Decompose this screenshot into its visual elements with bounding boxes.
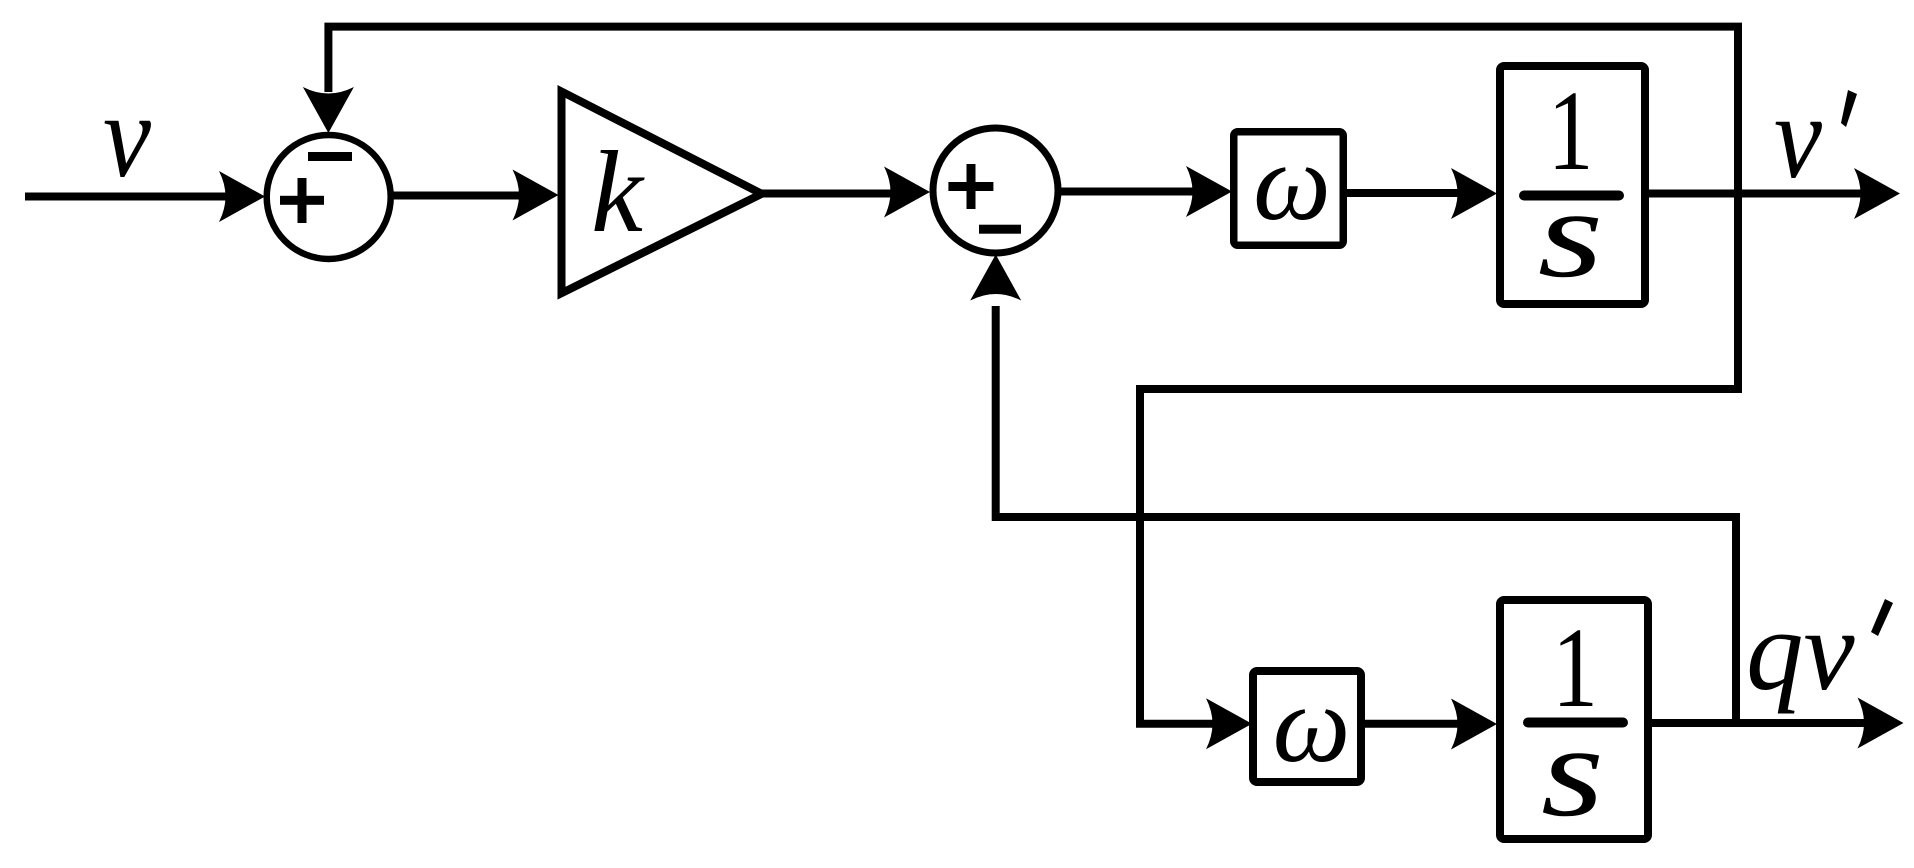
arrowhead: into w2 — [1206, 698, 1252, 749]
wire: qv' feedback up into S2 bottom — [996, 306, 1736, 724]
wire: w1 to integrator I1 — [1346, 189, 1459, 197]
svg-text:s: s — [1541, 699, 1604, 844]
minus sign in S1 — [308, 152, 352, 161]
svg-text:k: k — [591, 128, 645, 257]
label v' (output) — [1774, 70, 1822, 203]
svg-text:ω: ω — [1273, 663, 1351, 785]
wire: v' branch down to gain block w2 — [1140, 389, 1742, 724]
fraction bar in I2 — [1528, 718, 1623, 728]
svg-text:v: v — [1774, 70, 1822, 203]
summing junction S1 — [267, 135, 391, 259]
gain block w2 (omega) — [1253, 671, 1361, 782]
arrowhead: into integrator I1 — [1451, 168, 1497, 219]
gain k triangle — [562, 92, 762, 294]
svg-text:v: v — [103, 69, 151, 202]
denominator s in I1 — [1538, 164, 1604, 304]
wire: S2 to gain block w1 — [1059, 188, 1194, 196]
minus sign in S2 — [979, 225, 1021, 234]
wire: integrator I2 to output qv' — [1651, 719, 1865, 727]
arrowhead: feedback down into S1 — [303, 87, 354, 133]
wire: input v into summing junction S1 — [25, 193, 230, 201]
integrator I2 block — [1500, 600, 1648, 839]
arrowhead: output qv' — [1858, 698, 1904, 749]
arrowhead: input into S1 — [219, 171, 265, 222]
label v (input) — [103, 69, 151, 202]
svg-text:s: s — [1538, 164, 1604, 304]
numerator 1 in I2 — [1552, 606, 1598, 732]
arrowhead: into gain k — [513, 170, 559, 221]
numerator 1 in I1 — [1548, 69, 1594, 195]
plus sign in S1 — [280, 178, 324, 223]
wire: gain k to summing junction S2 — [760, 190, 892, 198]
wire: w2 to integrator I2 — [1364, 720, 1459, 728]
arrowhead: into w1 — [1186, 166, 1232, 217]
svg-text:ω: ω — [1253, 121, 1331, 243]
arrowhead: output v' — [1854, 168, 1900, 219]
arrowhead: into integrator I2 — [1451, 699, 1497, 750]
wire: S1 to gain k — [392, 192, 522, 200]
fraction bar in I1 — [1524, 191, 1619, 201]
arrowhead: feedback up into S2 — [970, 255, 1021, 301]
wire: v' node feedback, up-and-over to S1 top — [328, 27, 1738, 393]
gain block w1 (omega) — [1234, 132, 1344, 246]
svg-text:qv: qv — [1746, 587, 1856, 714]
integrator I1 block — [1500, 66, 1645, 304]
summing junction S2 — [933, 128, 1058, 253]
prime of v' — [1841, 90, 1857, 127]
plus sign in S2 — [948, 164, 993, 209]
wire: integrator I1 to output v' — [1648, 190, 1862, 198]
arrowhead: into S2 — [884, 167, 930, 218]
denominator s in I2 — [1541, 699, 1604, 844]
prime of qv' — [1871, 599, 1893, 636]
